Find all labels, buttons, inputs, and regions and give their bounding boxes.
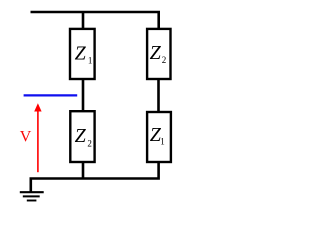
bottom rail wire with corners to Z1 and ground stub (31, 162, 159, 193)
impedance Z2 bottom-left box (70, 111, 94, 162)
svg-text:Z: Z (75, 42, 87, 64)
ground (20, 192, 44, 200)
svg-text:Z: Z (75, 125, 87, 147)
svg-text:2: 2 (87, 138, 92, 148)
wire stub from top rail to Z1 top (82, 12, 85, 29)
wire between right boxes (157, 79, 160, 113)
svg-text:2: 2 (162, 55, 167, 65)
voltage arrow V (34, 103, 41, 172)
impedance Z1 bottom-right box (147, 112, 171, 162)
wire between left boxes (82, 79, 85, 112)
top rail wire with right corner down to Z2 box (31, 12, 159, 29)
impedance Z1 top-left box (70, 29, 95, 79)
svg-text:V: V (20, 128, 32, 145)
node line (blue) (24, 94, 78, 96)
impedance Z2 top-right box (147, 29, 170, 79)
svg-text:1: 1 (88, 55, 93, 65)
svg-text:Z: Z (150, 42, 162, 64)
wire stub Z2 bottom to rail (82, 162, 85, 179)
svg-text:1: 1 (160, 137, 165, 147)
